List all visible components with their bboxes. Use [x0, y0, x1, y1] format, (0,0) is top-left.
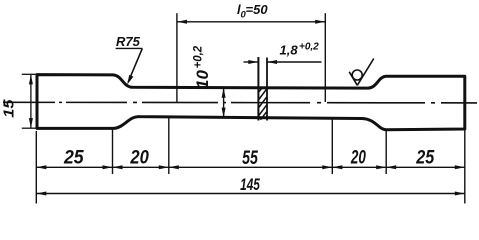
svg-text:15: 15	[2, 98, 18, 117]
svg-text:25: 25	[415, 148, 434, 169]
svg-text:+0,2: +0,2	[299, 42, 319, 53]
section band left edge	[257, 57, 259, 121]
svg-text:55: 55	[242, 148, 258, 169]
svg-text:R75: R75	[116, 34, 141, 49]
centerline	[3, 101, 477, 104]
label R75 with leader	[116, 34, 143, 85]
svg-text:20: 20	[350, 148, 366, 169]
svg-text:10: 10	[193, 70, 212, 89]
specimen outline	[37, 75, 465, 130]
svg-text:20: 20	[130, 148, 150, 169]
svg-text:145: 145	[240, 175, 260, 194]
section band right edge	[266, 58, 268, 121]
svg-text:1,8: 1,8	[280, 43, 299, 58]
section hatch	[259, 87, 267, 120]
surface finish symbol	[349, 59, 374, 86]
dimension l0=50 (gauge length, top)	[177, 2, 325, 103]
svg-text:25: 25	[63, 148, 84, 169]
dimension 15 (left height)	[2, 74, 38, 128]
svg-text:+0,2: +0,2	[193, 45, 205, 68]
bottom dimension row extension lines	[36, 118, 465, 204]
dimension 1,8+0,2 (thickness)	[244, 42, 322, 65]
dimension row 25/20/55/20/25	[36, 148, 465, 170]
dimension 10+0,2 (narrow width)	[193, 45, 226, 117]
dimension 145 (overall)	[36, 175, 465, 196]
svg-text:=50: =50	[246, 2, 269, 17]
